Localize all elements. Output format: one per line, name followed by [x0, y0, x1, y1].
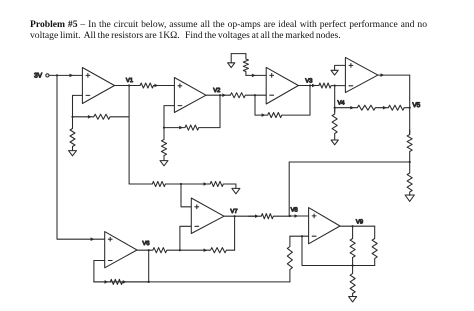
- wire U3 feedback up: [309, 84, 311, 115]
- svg-text:V7: V7: [230, 208, 238, 215]
- svg-text:3V: 3V: [34, 72, 43, 79]
- ground G3: [232, 184, 240, 194]
- wire V4 node down: [334, 85, 336, 113]
- wire U5 output: [137, 249, 149, 251]
- wire U3 - down: [254, 94, 256, 115]
- wire U7 - drop: [301, 235, 354, 267]
- wire U5 - input: [94, 261, 105, 282]
- svg-text:V9: V9: [356, 218, 364, 225]
- resistor R3 V1 to U2 +: [140, 83, 174, 88]
- op-amp U1: [82, 68, 114, 104]
- wire V7 + input: [180, 183, 191, 207]
- wire U1 output: [115, 85, 141, 87]
- wire U4 + input: [335, 65, 346, 70]
- svg-text:V5: V5: [412, 102, 420, 109]
- svg-text:V6: V6: [142, 240, 150, 247]
- wire 3V to U1 + input: [49, 74, 82, 78]
- svg-text:V8: V8: [291, 207, 299, 214]
- wire U2 feedback up: [219, 94, 221, 128]
- ground G6: [331, 140, 338, 145]
- svg-text:V2: V2: [213, 87, 221, 94]
- node V5 label: [412, 102, 420, 109]
- op-amp U2: [174, 78, 206, 113]
- resistor R19 U5 feedback bottom: [94, 279, 149, 284]
- wire U7 output: [340, 225, 375, 227]
- node V2 label: [213, 87, 221, 94]
- terminal circle: [46, 74, 49, 77]
- wire long rail V5 to V8+: [289, 161, 411, 217]
- resistor R6 V2 to U3 -: [230, 93, 255, 98]
- resistor R12 V4-V5 second: [381, 105, 410, 110]
- resistor R11 V4-V5 first: [335, 105, 381, 110]
- resistor R13 V5 upper: [407, 130, 412, 162]
- resistor R15 divider upper: [152, 181, 181, 186]
- resistor R7 U3 feedback: [255, 113, 310, 118]
- resistor R23 V9 parallel 2: [372, 226, 377, 265]
- op-amp U3: [266, 67, 298, 104]
- ground G5: [331, 70, 338, 75]
- resistor R10 V4 to ground: [332, 108, 337, 140]
- resistor R22 V9 parallel 1: [350, 225, 355, 265]
- resistor R21 U7 - down: [287, 236, 292, 282]
- ground G7: [405, 195, 414, 201]
- node V1 label: [126, 77, 134, 84]
- resistor R14 V5 to ground: [407, 162, 412, 196]
- op-amp U7: [309, 208, 340, 244]
- wire U2 output: [206, 93, 230, 97]
- wire V5 vertical: [409, 75, 411, 134]
- resistor R2 U1 - to ground: [70, 117, 75, 151]
- wire U4 output: [378, 73, 410, 77]
- svg-text:V1: V1: [126, 77, 134, 84]
- wire V7 - input: [179, 226, 192, 251]
- node V4 label: [338, 100, 346, 107]
- svg-text:V3: V3: [305, 78, 313, 85]
- resistor R8 U3 + bias: [243, 54, 248, 76]
- resistor R1 U1 feedback: [71, 114, 128, 119]
- node V7 label: [230, 208, 238, 215]
- ground G8: [349, 297, 357, 302]
- resistor R9 V3 to U4 -: [319, 83, 346, 88]
- op-amp U5: [105, 232, 137, 268]
- resistor R20 V7 to V8 +: [248, 214, 290, 219]
- resistor R17 V6 line: [149, 248, 180, 253]
- wire U3 + input: [246, 74, 266, 78]
- ground G1: [69, 151, 77, 156]
- wire V8 + to U7: [290, 214, 309, 218]
- node V9 label: [356, 218, 364, 225]
- wire 3V node down-left rail: [56, 74, 105, 241]
- resistor R24 V9 to ground: [350, 266, 355, 297]
- resistor R4 U2 feedback: [164, 125, 220, 130]
- resistor R16 divider lower: [181, 181, 236, 186]
- ground G4: [228, 54, 235, 68]
- node V3 label: [305, 78, 313, 85]
- wire U6 output: [224, 215, 257, 217]
- node V8 label: [291, 207, 299, 214]
- ground G2: [160, 161, 168, 166]
- svg-text:V4: V4: [338, 100, 346, 107]
- wire U3 - input: [255, 94, 266, 96]
- resistor R5 U2 - to ground: [161, 127, 166, 161]
- wire U3 output: [298, 84, 319, 88]
- op-amp U6: [191, 198, 224, 234]
- resistor R18 V7 feedback: [180, 248, 235, 253]
- wire parallel bottoms: [353, 265, 375, 267]
- wire bias top: [231, 53, 246, 55]
- wire U2 - input: [164, 106, 174, 128]
- wire U1 - input: [73, 95, 83, 116]
- wire U7 - input: [290, 235, 309, 237]
- node V6 label: [142, 240, 150, 247]
- wire bottom rail: [94, 281, 290, 283]
- voltage source 3V label: [34, 72, 43, 79]
- wire V6 feedback up: [148, 249, 150, 283]
- op-amp U4: [345, 57, 378, 92]
- wire V1 node down: [128, 84, 152, 184]
- wire V7 feedback down: [234, 215, 236, 250]
